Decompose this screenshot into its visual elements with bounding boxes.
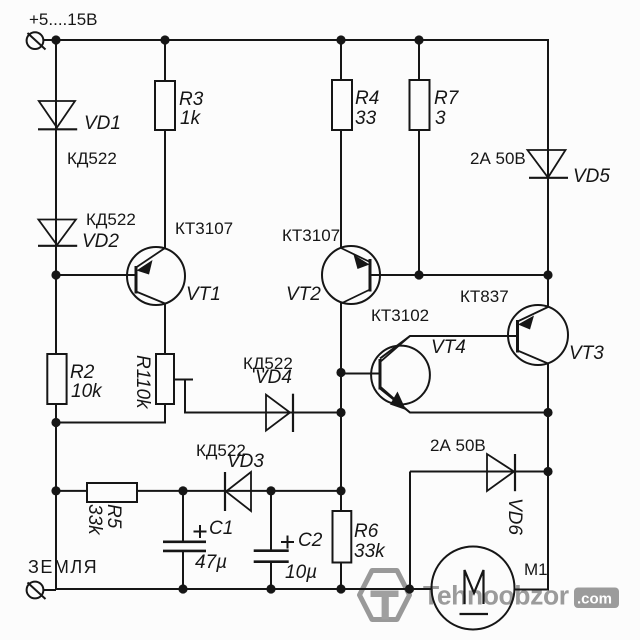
svg-text:ЗЕМЛЯ: ЗЕМЛЯ bbox=[28, 557, 98, 577]
svg-text:R5: R5 bbox=[103, 504, 124, 529]
svg-text:C2: C2 bbox=[298, 530, 323, 551]
svg-text:10µ: 10µ bbox=[285, 562, 317, 583]
svg-text:VT2: VT2 bbox=[286, 284, 321, 305]
svg-text:Tehnoobzor: Tehnoobzor bbox=[423, 581, 569, 611]
svg-text:КТ3107: КТ3107 bbox=[282, 226, 340, 245]
svg-text:+5....15В: +5....15В bbox=[29, 10, 98, 29]
svg-text:R7: R7 bbox=[434, 88, 460, 109]
svg-text:VD1: VD1 bbox=[84, 113, 121, 134]
svg-text:R2: R2 bbox=[70, 362, 95, 383]
svg-text:1k: 1k bbox=[180, 108, 202, 129]
svg-text:33k: 33k bbox=[84, 504, 105, 536]
svg-text:M1: M1 bbox=[524, 560, 548, 579]
svg-text:2А 50В: 2А 50В bbox=[470, 149, 526, 168]
svg-text:33: 33 bbox=[355, 108, 377, 129]
svg-text:КД522: КД522 bbox=[86, 210, 136, 229]
svg-text:47µ: 47µ bbox=[195, 552, 227, 573]
svg-text:2А 50В: 2А 50В bbox=[430, 436, 486, 455]
svg-text:VT3: VT3 bbox=[569, 343, 604, 364]
svg-text:VD3: VD3 bbox=[227, 451, 264, 472]
svg-text:3: 3 bbox=[435, 108, 446, 129]
svg-text:R110k: R110k bbox=[132, 355, 153, 410]
svg-text:10k: 10k bbox=[71, 381, 103, 402]
svg-text:VT4: VT4 bbox=[431, 337, 466, 358]
svg-text:VD5: VD5 bbox=[573, 166, 610, 187]
svg-text:КТ3102: КТ3102 bbox=[371, 306, 429, 325]
svg-text:VD6: VD6 bbox=[504, 498, 525, 535]
svg-text:КД522: КД522 bbox=[67, 149, 117, 168]
svg-text:R6: R6 bbox=[354, 521, 379, 542]
svg-text:.com: .com bbox=[577, 591, 612, 608]
svg-text:R3: R3 bbox=[179, 89, 204, 110]
svg-text:R4: R4 bbox=[355, 88, 379, 109]
svg-text:33k: 33k bbox=[354, 541, 386, 562]
svg-text:КТ837: КТ837 bbox=[460, 287, 509, 306]
svg-text:VD4: VD4 bbox=[255, 367, 292, 388]
svg-text:VD2: VD2 bbox=[82, 231, 119, 252]
svg-text:C1: C1 bbox=[209, 518, 233, 539]
svg-text:VT1: VT1 bbox=[186, 284, 221, 305]
svg-text:КТ3107: КТ3107 bbox=[175, 219, 233, 238]
